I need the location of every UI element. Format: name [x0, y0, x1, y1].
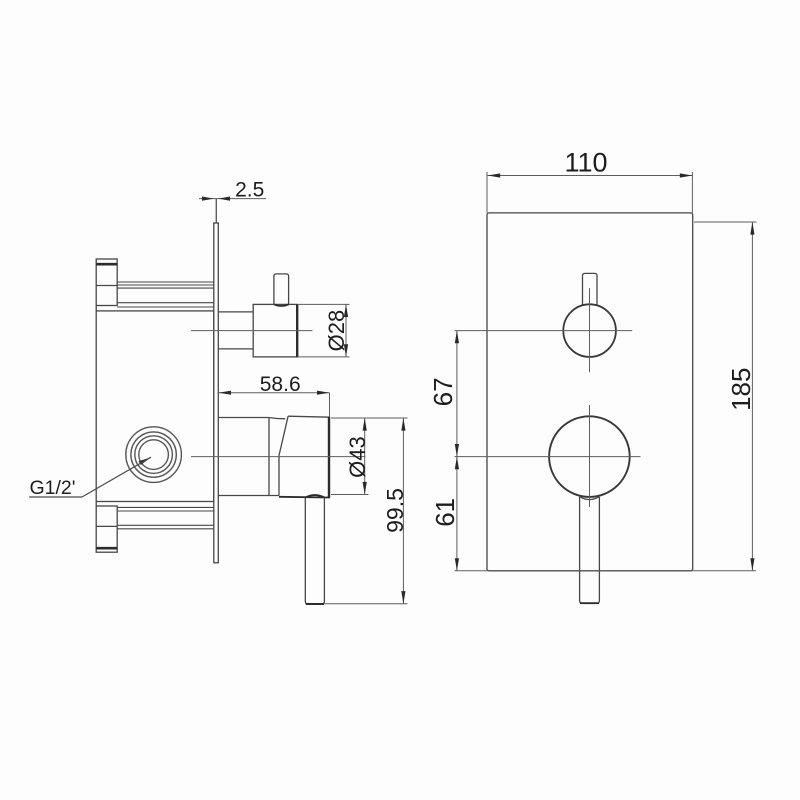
- svg-text:G1/2': G1/2': [30, 477, 76, 499]
- svg-text:Ø28: Ø28: [324, 310, 349, 352]
- svg-text:67: 67: [428, 377, 458, 406]
- svg-text:61: 61: [430, 498, 460, 527]
- svg-text:58.6: 58.6: [260, 373, 301, 396]
- svg-text:Ø43: Ø43: [345, 436, 370, 478]
- svg-text:185: 185: [726, 368, 756, 411]
- svg-text:99.5: 99.5: [382, 488, 408, 533]
- svg-text:110: 110: [564, 148, 607, 178]
- svg-text:2.5: 2.5: [235, 179, 264, 202]
